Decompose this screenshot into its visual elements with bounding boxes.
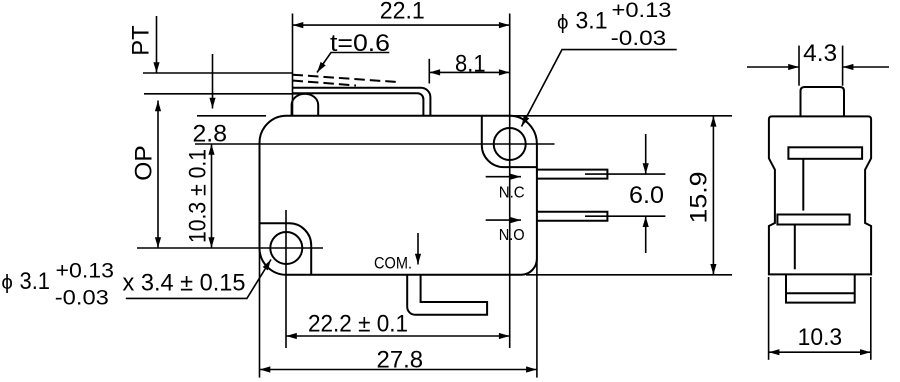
- svg-text:PT: PT: [128, 25, 155, 56]
- svg-text:6.0: 6.0: [629, 182, 664, 209]
- svg-text:ϕ: ϕ: [557, 11, 568, 34]
- svg-text:8.1: 8.1: [455, 51, 486, 78]
- svg-text:x 3.4 ± 0.15: x 3.4 ± 0.15: [123, 270, 246, 297]
- svg-text:2.8: 2.8: [193, 121, 228, 148]
- svg-text:15.9: 15.9: [685, 172, 712, 224]
- side view upper terminal slot: [788, 147, 862, 159]
- dimension 4.3: [798, 46, 800, 86]
- side view body outline: [769, 116, 871, 274]
- dimension 2.8: [212, 54, 214, 109]
- extension line lever left end: [292, 14, 294, 117]
- side view plunger button: [801, 87, 845, 116]
- svg-text:27.8: 27.8: [377, 347, 424, 374]
- svg-text:-0.03: -0.03: [55, 286, 109, 310]
- side view bottom foot: [786, 274, 855, 302]
- operating position line B: [144, 93, 305, 95]
- svg-text:+0.13: +0.13: [612, 0, 672, 22]
- extension line body top edge left: [197, 115, 266, 117]
- extension line body left edge down: [259, 248, 261, 378]
- boss around top-right hole: [482, 116, 537, 167]
- svg-text:ϕ: ϕ: [1, 271, 12, 294]
- centerline horizontal through bottom-left hole: [137, 247, 323, 249]
- dimension 8.1: [428, 59, 430, 84]
- dimension OP: [157, 101, 159, 249]
- plunger dome: [292, 94, 319, 116]
- boss around bottom-left hole: [260, 223, 312, 274]
- svg-text:OP: OP: [131, 145, 158, 181]
- extension line body top edge right: [510, 115, 732, 117]
- hinge lever inner edge: [293, 93, 424, 116]
- centerline vertical through top-right hole: [509, 14, 511, 349]
- switch body outline (front view): [260, 116, 537, 275]
- svg-text:3.1: 3.1: [20, 268, 51, 295]
- terminal N.O: [537, 212, 608, 221]
- lever free position dashed upper: [293, 75, 401, 83]
- dimension 10.3 (side view width): [768, 277, 770, 360]
- svg-text:10.3: 10.3: [798, 324, 843, 351]
- svg-text:10.3 ± 0.1: 10.3 ± 0.1: [185, 149, 212, 243]
- dimension 6.0: [607, 173, 665, 175]
- dimension 10.3 +/- 0.1: [211, 144, 213, 248]
- centerline vertical through bottom-left hole: [285, 210, 287, 348]
- dimension PT: [156, 16, 158, 73]
- svg-text:COM.: COM.: [374, 254, 412, 273]
- extension line body right edge down: [536, 259, 538, 378]
- terminal N.C: [537, 170, 608, 179]
- free position line A: [143, 72, 293, 74]
- side view foot inner line: [786, 292, 855, 294]
- dimension 15.9: [712, 116, 714, 275]
- dimension 22.2 +/- 0.1: [286, 335, 510, 337]
- svg-text:4.3: 4.3: [803, 40, 837, 67]
- svg-text:22.2 ± 0.1: 22.2 ± 0.1: [308, 311, 408, 338]
- side view lower terminal slot: [777, 215, 849, 225]
- svg-text:22.1: 22.1: [380, 0, 425, 24]
- extension line body bottom edge right: [526, 274, 732, 276]
- svg-text:3.1: 3.1: [576, 7, 608, 34]
- lever free position dashed lower: [293, 81, 357, 86]
- hinge lever outer edge: [293, 88, 431, 116]
- svg-text:-0.03: -0.03: [611, 26, 667, 50]
- dimension 22.1: [293, 24, 510, 26]
- dimension 27.8: [260, 369, 537, 371]
- svg-text:N.O: N.O: [499, 227, 525, 244]
- centerline horizontal through top-right hole: [195, 143, 555, 145]
- mounting hole bottom-left: [270, 232, 302, 264]
- svg-text:+0.13: +0.13: [56, 258, 115, 282]
- side view inner line upper: [802, 159, 804, 211]
- terminal COM (L-shaped): [407, 275, 487, 315]
- svg-text:N.C: N.C: [499, 184, 525, 201]
- mounting hole top-right: [494, 128, 526, 160]
- side view inner line lower: [794, 225, 796, 270]
